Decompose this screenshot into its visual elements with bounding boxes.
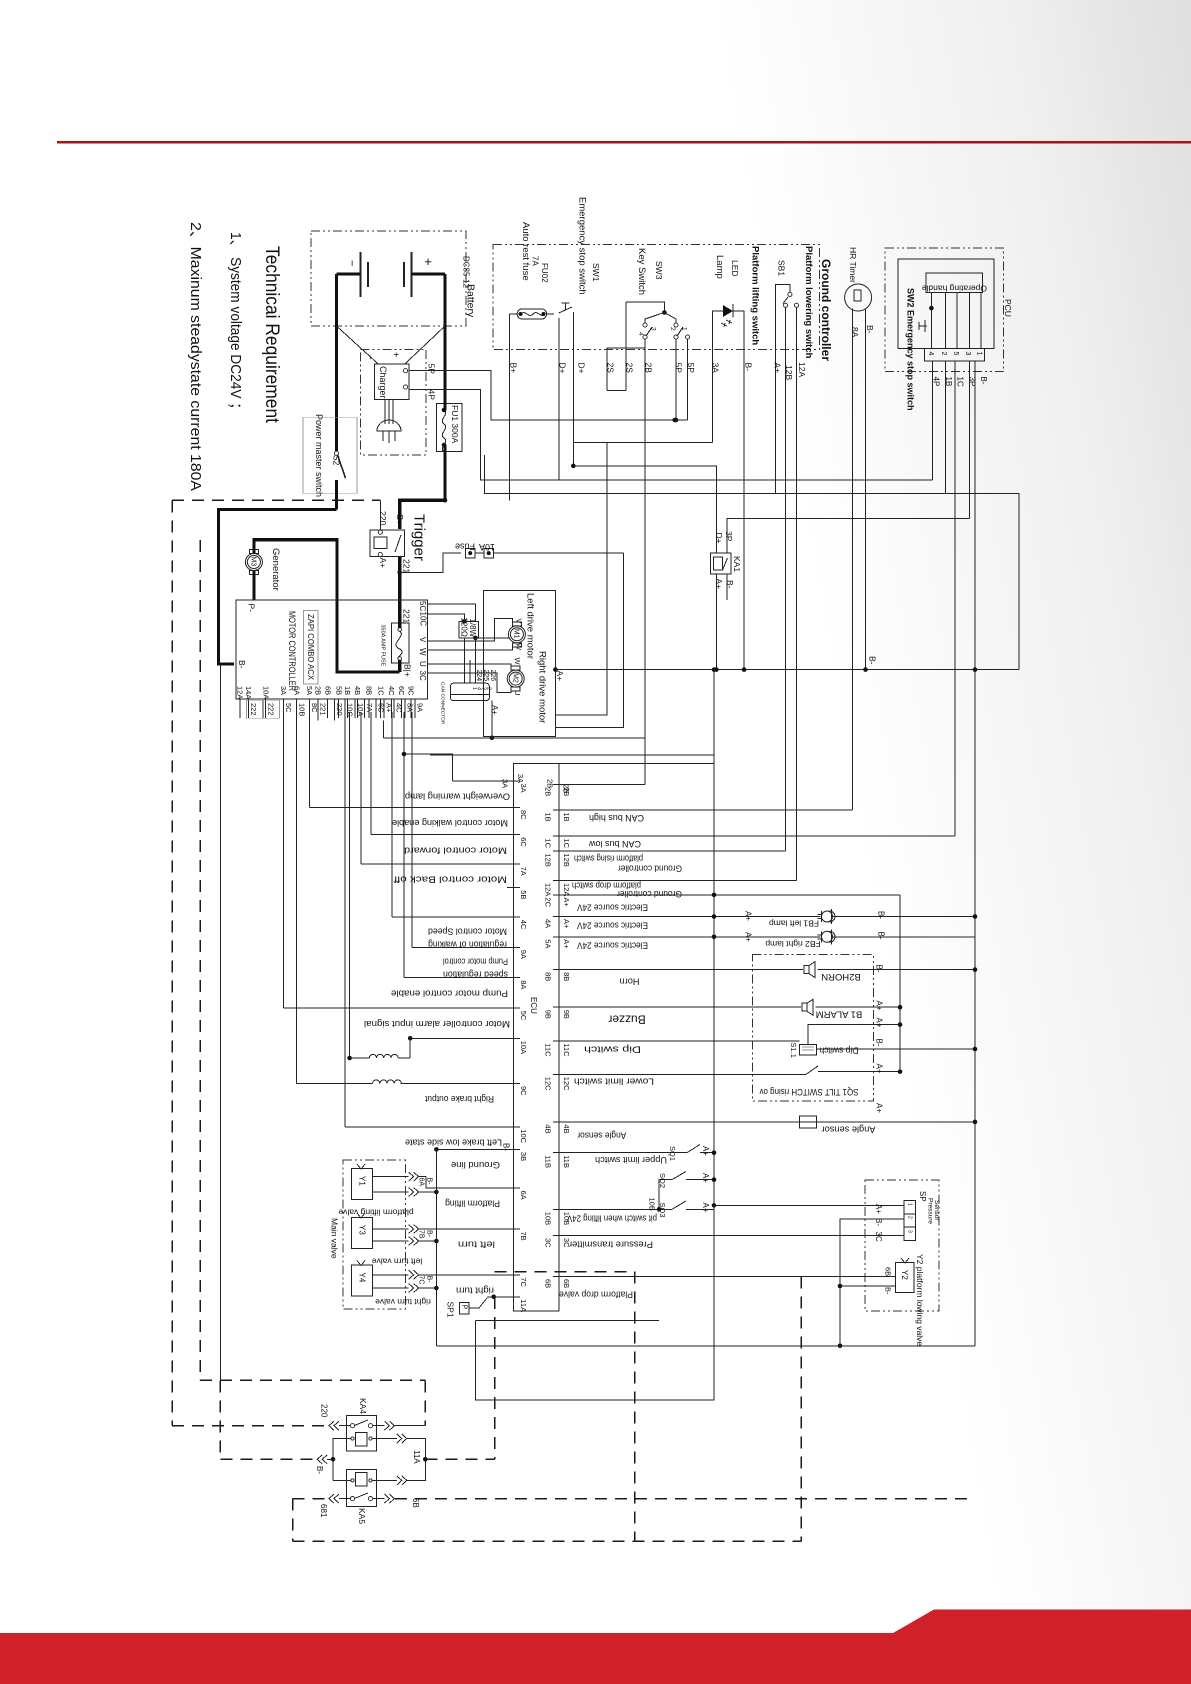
svg-text:12A: 12A <box>562 883 571 896</box>
svg-text:SP: SP <box>918 1191 927 1202</box>
svg-text:B-: B- <box>237 660 247 669</box>
svg-text:Operating handle: Operating handle <box>922 284 987 294</box>
Y2 B- wire <box>840 1285 895 1287</box>
svg-text:8A: 8A <box>519 980 528 989</box>
9C row with right brake coil <box>400 1083 513 1085</box>
svg-text:10A: 10A <box>261 686 270 699</box>
svg-text:B+: B+ <box>508 363 518 374</box>
svg-text:D+: D+ <box>557 363 567 374</box>
wire 3P from KA1 to PCU <box>727 519 970 553</box>
svg-text:12C: 12C <box>562 1077 571 1091</box>
electric source row 1 <box>559 894 900 896</box>
charger terminals <box>403 369 407 373</box>
svg-text:3A: 3A <box>519 784 528 793</box>
svg-text:right turn valve: right turn valve <box>375 1297 431 1307</box>
svg-text:SW3: SW3 <box>654 261 664 280</box>
svg-text:11B: 11B <box>562 1155 571 1168</box>
link bus to 2B riser <box>382 721 384 738</box>
svg-text:4P: 4P <box>426 390 436 401</box>
KA4 contact out <box>373 1425 385 1427</box>
svg-text:D+: D+ <box>714 533 724 544</box>
ECU left row wires <box>309 807 513 809</box>
svg-text:3C: 3C <box>418 671 427 681</box>
svg-text:222: 222 <box>249 703 258 716</box>
PCU pin strip 4 2 5 3 1 <box>924 349 984 361</box>
A+ horizontal rail <box>555 669 1019 671</box>
wire 4P chain from charger to PCU 4P <box>409 390 933 481</box>
A+ node on motor box edge <box>553 667 558 672</box>
svg-text:6C: 6C <box>519 837 528 847</box>
svg-text:221: 221 <box>401 559 411 573</box>
svg-text:right turn: right turn <box>456 1285 494 1295</box>
electric source row 2 with lamp FB1 <box>559 916 820 918</box>
wire 12B from SB1 <box>785 308 787 852</box>
electric source row 3 with lamp FB2 <box>559 936 820 938</box>
angle sensor row 4B <box>559 1121 800 1123</box>
sensor B- wire <box>840 1219 904 1346</box>
svg-text:3: 3 <box>964 352 971 356</box>
svg-text:1: 1 <box>906 1203 912 1206</box>
CAN bus low row <box>559 835 955 837</box>
resistor 120ohm 1/8W <box>459 621 479 638</box>
svg-text:12B: 12B <box>562 854 571 867</box>
trigger 220 coil wire up to dashed harness <box>379 500 381 530</box>
ECU left pin labels and ticks <box>507 780 520 782</box>
red header rule <box>57 141 1191 144</box>
svg-text:Fuse: Fuse <box>455 542 475 552</box>
svg-text:3P: 3P <box>724 531 734 542</box>
thick trigger output 221 <box>398 557 401 602</box>
wire 5P chain from charger <box>409 371 688 420</box>
svg-text:SB1: SB1 <box>776 260 786 276</box>
svg-text:CAN bus high: CAN bus high <box>589 813 644 823</box>
thick jog battery-minus to controller B- <box>218 510 336 664</box>
buzzer row 9B <box>559 1006 801 1008</box>
wire 8A pin down to pump-enable row <box>403 712 405 978</box>
svg-text:SW1: SW1 <box>591 263 601 282</box>
svg-text:platform rising switch: platform rising switch <box>574 853 643 863</box>
svg-text:Charger: Charger <box>378 366 388 399</box>
wire resistor to motor-box can link <box>476 637 510 639</box>
svg-text:platform lifting valve: platform lifting valve <box>338 1207 413 1217</box>
motor controller box <box>236 600 427 699</box>
svg-text:PCU: PCU <box>1003 299 1013 317</box>
svg-text:A+: A+ <box>874 1018 883 1028</box>
svg-text:3C: 3C <box>874 1232 883 1242</box>
svg-text:SQ1 TILT SWITCH rising ov: SQ1 TILT SWITCH rising ov <box>759 1087 858 1097</box>
svg-text:Left drive motor: Left drive motor <box>525 593 536 659</box>
svg-text:B-: B- <box>876 932 885 940</box>
svg-text:Generator: Generator <box>270 548 281 591</box>
svg-text:P-: P- <box>246 604 256 613</box>
svg-text:11C: 11C <box>562 1043 571 1057</box>
svg-text:10B: 10B <box>648 1198 657 1211</box>
svg-text:Emergency stop switch: Emergency stop switch <box>577 197 588 295</box>
key switch wires down <box>625 302 627 390</box>
dip switch A+ branch <box>808 1025 900 1045</box>
PCU enclosure <box>885 248 1004 371</box>
svg-text:B-: B- <box>425 1178 432 1186</box>
KA1 B- stub <box>726 574 728 600</box>
wires controller W U to M2 <box>427 664 511 666</box>
svg-text:2S: 2S <box>605 363 615 374</box>
12A platform drop row <box>559 880 796 882</box>
svg-text:2B: 2B <box>643 363 653 374</box>
wire 12A from SB1 <box>796 308 798 881</box>
svg-text:Ground controller: Ground controller <box>617 889 682 899</box>
charger mains cord and plug <box>384 399 386 424</box>
svg-text:8C: 8C <box>519 810 528 820</box>
svg-text:8B: 8B <box>365 686 374 695</box>
svg-text:A+: A+ <box>562 939 571 949</box>
generator M3 <box>245 550 262 575</box>
svg-text:220: 220 <box>319 1404 328 1418</box>
svg-text:1: 1 <box>680 327 687 331</box>
svg-text:10B: 10B <box>544 1212 553 1225</box>
svg-text:6B: 6B <box>411 1498 420 1508</box>
battery bus wires (thick) <box>337 272 361 275</box>
svg-text:3: 3 <box>649 327 656 331</box>
svg-text:2: 2 <box>906 1216 912 1219</box>
pressure sensor connector <box>904 1200 916 1240</box>
svg-text:8A: 8A <box>405 703 414 712</box>
svg-text:5C: 5C <box>284 703 293 713</box>
svg-text:1C: 1C <box>955 377 964 387</box>
svg-text:−: − <box>365 355 374 360</box>
svg-text:6C: 6C <box>397 686 406 696</box>
svg-text:Dip switch: Dip switch <box>584 1044 641 1054</box>
svg-text:ECU: ECU <box>529 997 538 1014</box>
svg-text:10B: 10B <box>297 703 306 716</box>
wire 9A pin down to pump-speed row <box>411 712 413 947</box>
svg-text:11C: 11C <box>544 1043 553 1057</box>
svg-text:A+: A+ <box>701 1146 710 1156</box>
svg-text:4C: 4C <box>394 703 403 713</box>
motor M1 <box>508 622 525 647</box>
svg-text:KA1: KA1 <box>732 556 742 572</box>
svg-text:Trigger: Trigger <box>411 514 428 561</box>
wire 220 pin stub <box>334 712 336 721</box>
drop valve dashed box <box>495 1271 635 1273</box>
wires 5C/10C to resistor <box>427 604 475 621</box>
branch to ECU 3A row <box>404 754 452 781</box>
controller pin stubs <box>239 699 241 718</box>
CAN connector <box>451 683 490 701</box>
svg-text:5B: 5B <box>519 890 528 899</box>
svg-text:Technicai Requirement: Technicai Requirement <box>261 246 282 424</box>
svg-text:8B: 8B <box>544 972 553 981</box>
SW2 push switch symbol <box>919 320 927 332</box>
svg-text:Y2 platform lowing valve: Y2 platform lowing valve <box>915 1254 925 1346</box>
wire D+ link to KA1 <box>573 466 716 553</box>
svg-text:9A: 9A <box>416 703 425 712</box>
svg-text:Right drive motor: Right drive motor <box>537 651 548 723</box>
svg-text:1: 1 <box>975 352 982 356</box>
relay KA4 <box>346 1416 376 1451</box>
svg-text:3A: 3A <box>516 774 525 783</box>
operating handle box <box>926 273 982 292</box>
svg-text:Pump motor control: Pump motor control <box>443 956 508 966</box>
wire 4C pin down to speed-reg row <box>391 712 393 917</box>
svg-text:M3: M3 <box>250 557 257 567</box>
wire 221 pin stub <box>317 712 319 721</box>
svg-text:Pressure transmitter: Pressure transmitter <box>569 1240 653 1250</box>
svg-text:5A: 5A <box>544 939 553 948</box>
svg-text:1C: 1C <box>376 686 385 696</box>
svg-text:4B: 4B <box>562 1124 571 1133</box>
motor M2 <box>507 666 524 691</box>
svg-text:A+: A+ <box>378 558 388 569</box>
svg-text:A+: A+ <box>555 671 565 682</box>
svg-text:ZAPI COMBO ACX: ZAPI COMBO ACX <box>306 614 316 680</box>
KA5 coil wires <box>332 1459 334 1480</box>
svg-text:220: 220 <box>378 511 388 525</box>
ECU connector box <box>513 763 559 1311</box>
svg-text:Auto rest fuse: Auto rest fuse <box>520 222 531 281</box>
6B dashed wire right <box>395 1498 975 1500</box>
A+ bus vertical <box>713 670 715 1206</box>
pit switch SQ2 <box>659 1179 672 1181</box>
svg-text:12B: 12B <box>544 854 553 867</box>
svg-text:B-: B- <box>315 1466 324 1474</box>
svg-text:5A: 5A <box>305 686 314 695</box>
svg-text:Motor control walking enable: Motor control walking enable <box>392 818 508 828</box>
svg-text:V: V <box>418 637 427 643</box>
platform drop valve row 6B <box>559 1276 895 1278</box>
svg-text:1B: 1B <box>562 813 571 822</box>
svg-text:Buzzer: Buzzer <box>608 1012 645 1026</box>
main valve enclosure <box>343 1160 405 1309</box>
svg-text:1C: 1C <box>544 839 553 849</box>
svg-text:B|+: B|+ <box>402 664 412 677</box>
svg-text:2: 2 <box>669 327 676 331</box>
svg-text:LED: LED <box>730 260 740 277</box>
thick B+ stud wire <box>398 660 401 672</box>
svg-text:Y3: Y3 <box>357 1225 366 1235</box>
svg-text:Upper limit switch: Upper limit switch <box>595 1155 667 1165</box>
svg-text:1C: 1C <box>562 839 571 849</box>
svg-text:pit switch when lifting 24V: pit switch when lifting 24V <box>567 1214 657 1224</box>
wire 10A pin down to brake coil <box>349 712 351 1058</box>
svg-text:2S: 2S <box>624 363 634 374</box>
svg-text:A+: A+ <box>743 911 752 921</box>
svg-text:W: W <box>513 658 522 666</box>
svg-text:3A: 3A <box>501 779 510 788</box>
valve Y3 <box>351 1218 372 1249</box>
timer wires down <box>852 309 854 811</box>
svg-text:5B: 5B <box>334 686 343 695</box>
svg-text:A+: A+ <box>490 705 499 715</box>
svg-text:FU02: FU02 <box>540 263 549 283</box>
svg-text:9A: 9A <box>519 950 528 959</box>
svg-text:Motor control Speed: Motor control Speed <box>428 926 507 936</box>
wires controller V W to M1 <box>427 618 512 641</box>
2B riser wire <box>559 784 645 786</box>
svg-text:14A: 14A <box>244 686 253 699</box>
PCU inner box <box>898 259 994 349</box>
svg-text:5P: 5P <box>673 363 683 374</box>
svg-text:Pressure: Pressure <box>926 1198 933 1224</box>
svg-text:1B: 1B <box>544 813 553 822</box>
pressure sensor enclosure <box>865 1180 939 1311</box>
platform module enclosure <box>753 955 874 1101</box>
svg-text:10C: 10C <box>418 612 427 627</box>
svg-text:Angle sensor: Angle sensor <box>822 1124 876 1134</box>
svg-text:681: 681 <box>319 1504 328 1518</box>
thick wire through FU1 <box>443 403 446 410</box>
svg-text:A+: A+ <box>701 1173 710 1183</box>
CAN bus high row <box>559 809 852 811</box>
fuse FU1 300A <box>436 403 462 451</box>
svg-text:1B: 1B <box>343 686 352 695</box>
svg-text:221: 221 <box>319 703 328 716</box>
charger enclosure <box>361 350 427 456</box>
svg-text:FB1 left lamp: FB1 left lamp <box>769 918 819 928</box>
svg-text:CAN bus low: CAN bus low <box>589 839 641 849</box>
LED loop wires <box>712 311 723 443</box>
svg-text:3A: 3A <box>710 363 720 374</box>
svg-text:B-: B- <box>501 1143 510 1151</box>
10A row with left brake coil <box>410 1037 513 1039</box>
svg-text:5: 5 <box>952 352 959 356</box>
ground controller enclosure <box>493 245 819 350</box>
svg-text:Angle sensor: Angle sensor <box>577 1130 626 1140</box>
svg-text:Overweight warning lamp: Overweight warning lamp <box>405 792 510 802</box>
svg-text:4C: 4C <box>519 920 528 930</box>
svg-text:2B: 2B <box>314 686 323 695</box>
drive motors enclosure <box>484 591 556 737</box>
svg-text:2B: 2B <box>546 779 555 788</box>
svg-text:2B: 2B <box>544 787 553 796</box>
KA4 coil right out <box>372 1438 397 1440</box>
svg-text:A+: A+ <box>701 1203 710 1213</box>
svg-text:Key Switch: Key Switch <box>636 248 647 295</box>
relay KA1 <box>711 553 731 574</box>
svg-text:12A: 12A <box>544 883 553 896</box>
svg-text:W: W <box>418 648 427 656</box>
svg-text:+: + <box>421 258 436 266</box>
svg-text:4: 4 <box>637 332 644 336</box>
svg-text:1、 System voltage DC24V ；: 1、 System voltage DC24V ； <box>227 232 244 416</box>
svg-text:P: P <box>460 1305 467 1310</box>
svg-text:W: W <box>515 643 524 651</box>
svg-text:KA5: KA5 <box>357 1508 367 1524</box>
svg-text:SQ3: SQ3 <box>658 1203 667 1218</box>
svg-text:2B: 2B <box>562 784 571 793</box>
svg-text:3B: 3B <box>519 1152 528 1161</box>
svg-text:7C: 7C <box>417 1276 424 1285</box>
svg-text:5P: 5P <box>426 364 436 375</box>
svg-text:Motor control Back off: Motor control Back off <box>393 875 507 885</box>
svg-text:Electric source 24V: Electric source 24V <box>577 902 648 912</box>
battery DC85-12 enclosure <box>311 231 466 326</box>
svg-text:Left brake low side state: Left brake low side state <box>405 1137 502 1147</box>
wire 8C pin down to walking-enable row <box>308 712 310 808</box>
svg-text:CAN CONNECTOR: CAN CONNECTOR <box>440 682 446 725</box>
wire 5C pin to ECU alarm row <box>283 712 285 1008</box>
internal 350A AMP FUSE <box>391 623 409 663</box>
dip switch row 11C <box>559 1040 800 1042</box>
svg-text:FB2 right lamp: FB2 right lamp <box>765 939 821 949</box>
label ZAPI COMBO ACX boxed <box>304 611 319 685</box>
valve Y4 <box>351 1265 372 1296</box>
10C row <box>345 1126 514 1128</box>
svg-text:6A: 6A <box>519 1191 528 1200</box>
dashed 220 harness top edge <box>172 499 380 501</box>
pit switch row 10B with SQ3 <box>559 1208 659 1210</box>
svg-text:B-: B- <box>874 965 883 973</box>
svg-text:SQ2: SQ2 <box>658 1173 667 1188</box>
svg-text:5C: 5C <box>418 601 427 611</box>
svg-text:Platform lowering switch: Platform lowering switch <box>803 246 814 359</box>
svg-text:3C: 3C <box>544 1238 553 1248</box>
svg-text:4: 4 <box>927 352 934 356</box>
KA4 coil left to B- node <box>333 1439 351 1460</box>
svg-text:Horn: Horn <box>620 976 640 986</box>
svg-text:11B: 11B <box>544 1155 553 1168</box>
svg-text:Pump motor control enable: Pump motor control enable <box>391 988 508 998</box>
wire 10B pin down to right-brake row <box>296 712 298 1084</box>
svg-text:Lamp: Lamp <box>714 255 725 279</box>
boxed 222 labels <box>247 700 263 718</box>
svg-text:B+: B+ <box>395 515 405 526</box>
svg-text:Y4: Y4 <box>357 1273 366 1283</box>
svg-text:B-: B- <box>874 1039 883 1047</box>
wire 7A pin down to back-off row <box>360 712 362 864</box>
svg-text:FU1 300A: FU1 300A <box>450 405 460 444</box>
B- bus vertical right <box>974 388 976 1346</box>
svg-text:Y1: Y1 <box>357 1176 366 1186</box>
red footer band <box>0 1610 1191 1684</box>
svg-text:Lower limit switch: Lower limit switch <box>574 1077 654 1087</box>
svg-text:2: 2 <box>486 687 492 690</box>
svg-text:left turn: left turn <box>458 1240 495 1250</box>
tilt switch row 12C <box>559 1073 806 1075</box>
svg-text:7B: 7B <box>417 1230 424 1239</box>
B- return line bottom <box>436 1345 975 1347</box>
svg-text:350A AMP FUSE: 350A AMP FUSE <box>380 625 386 667</box>
svg-text:B-: B- <box>884 1287 893 1295</box>
svg-text:7C: 7C <box>519 1277 528 1287</box>
handle pin wires <box>945 292 947 348</box>
valve B- bus <box>435 1149 437 1345</box>
svg-text:B1 ALARM: B1 ALARM <box>816 1009 863 1020</box>
wire A+ from lifting switch <box>775 290 777 494</box>
S2 switch blade <box>334 451 338 455</box>
svg-text:MOTOR CONTROLLER: MOTOR CONTROLLER <box>287 611 297 691</box>
svg-text:A+: A+ <box>385 703 394 713</box>
svg-text:8B: 8B <box>562 972 571 981</box>
svg-text:10A: 10A <box>519 1041 528 1054</box>
KA5 contact out 6B <box>373 1498 385 1500</box>
battery sense wires to charger <box>337 326 379 364</box>
long link wire under motors <box>430 754 714 756</box>
wire 6C pin down to forward row <box>370 712 372 835</box>
CAN wires resistor to connector <box>463 638 465 683</box>
svg-text:B-: B- <box>865 325 875 334</box>
svg-text:A+: A+ <box>562 897 571 907</box>
svg-text:U: U <box>418 661 427 667</box>
A+ return to KA relays <box>476 1205 714 1400</box>
svg-text:7A: 7A <box>365 703 374 712</box>
svg-text:1: 1 <box>471 687 477 690</box>
svg-text:SP1: SP1 <box>445 1302 455 1318</box>
timer HR <box>845 284 872 311</box>
svg-text:A+: A+ <box>714 579 724 590</box>
svg-text:Right brake output: Right brake output <box>425 1094 494 1104</box>
11A dashed link <box>425 1458 494 1460</box>
svg-text:Platform drop valve: Platform drop valve <box>559 1290 633 1300</box>
